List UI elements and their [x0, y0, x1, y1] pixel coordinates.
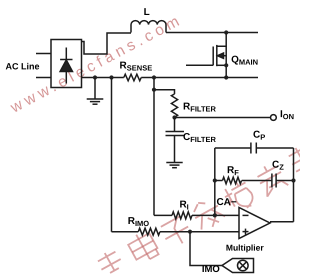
node source-rail	[224, 75, 228, 79]
svg-text:Multiplier: Multiplier	[226, 243, 264, 253]
svg-text:RIMO: RIMO	[128, 216, 150, 228]
svg-text:RF: RF	[227, 165, 239, 177]
wire cp right	[256, 147, 293, 149]
node source tie	[224, 63, 228, 67]
svg-text:QMAIN: QMAIN	[231, 55, 258, 67]
node ri tap	[152, 75, 156, 79]
wire R_IMO	[112, 231, 139, 233]
capacitor C_FILTER	[166, 118, 185, 163]
mosfet Q_MAIN	[186, 33, 226, 78]
node rf left	[213, 178, 217, 182]
capacitor C_Z	[272, 174, 294, 188]
node drain junction	[224, 30, 228, 34]
svg-text:L: L	[144, 7, 150, 18]
svg-text:ION: ION	[280, 109, 294, 121]
node cz right	[291, 178, 295, 182]
svg-text:IMO: IMO	[202, 264, 220, 275]
wire down to R_IMO	[111, 78, 113, 232]
wire opamp output	[270, 221, 294, 223]
AC line wire top	[36, 53, 51, 55]
AC line wire bottom	[36, 77, 51, 79]
svg-text:CA−: CA−	[216, 197, 236, 208]
node ground tap	[93, 75, 97, 79]
node plus input	[188, 230, 192, 234]
svg-text:RSENSE: RSENSE	[120, 60, 153, 72]
bottom rail wire right	[141, 77, 258, 79]
resistor R_IMO	[138, 228, 160, 235]
node filter mid	[172, 115, 176, 119]
svg-text:CFILTER: CFILTER	[183, 132, 217, 144]
wire to plus input	[160, 231, 239, 233]
multiplier block	[222, 259, 254, 273]
resistor R_F	[215, 177, 272, 184]
node inv input	[213, 213, 217, 217]
wire top rail to mosfet drain	[166, 32, 258, 34]
terminal I_ON	[271, 115, 277, 121]
feedback left rail	[214, 148, 216, 215]
ground 2	[166, 163, 182, 168]
wire to R_FILTER	[154, 90, 175, 94]
wire cp left	[215, 147, 251, 149]
node rimo tap	[109, 75, 113, 79]
bottom rail wire	[82, 77, 124, 79]
inductor L	[131, 21, 166, 33]
feedback right rail	[293, 148, 295, 222]
node rfilter branch	[152, 88, 156, 92]
wire multiplier out	[190, 232, 222, 266]
wire to I_ON	[175, 117, 271, 119]
resistor R_SENSE	[124, 74, 141, 81]
bridge diode D1	[60, 48, 72, 84]
wire down to R_I	[153, 78, 155, 216]
wire inv input	[154, 214, 172, 216]
watermark chinese chars	[95, 143, 318, 276]
svg-text:AC Line: AC Line	[6, 61, 40, 71]
svg-text:RI: RI	[179, 200, 188, 212]
resistor R_I	[172, 212, 192, 219]
op-amp CA	[239, 208, 270, 239]
ground 1	[87, 78, 104, 105]
capacitor C_P	[251, 143, 256, 154]
svg-text:RFILTER: RFILTER	[183, 102, 217, 114]
svg-text:CZ: CZ	[272, 160, 284, 172]
wire bridge output to inductor	[82, 33, 132, 54]
bridge rectifier box	[51, 40, 82, 88]
resistor R_FILTER	[171, 94, 177, 117]
svg-text:CP: CP	[253, 130, 265, 142]
